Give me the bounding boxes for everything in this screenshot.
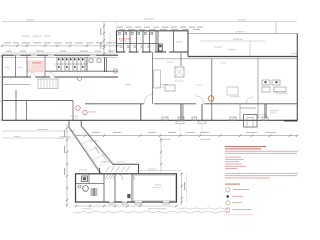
right roof edge line bbox=[188, 33, 298, 35]
corridor line bbox=[2, 84, 30, 86]
dim line above bb right bbox=[136, 170, 181, 172]
rotated dim text a bbox=[64, 130, 65, 137]
right hall wall bbox=[257, 57, 259, 120]
red notes paragraph 1 bbox=[225, 151, 298, 154]
orange circle marker bbox=[208, 96, 214, 102]
room fixtures x87-104 bbox=[89, 59, 101, 62]
faint footer text bbox=[228, 213, 253, 216]
overall dimension line top bbox=[2, 21, 297, 23]
dim line below left bbox=[2, 130, 75, 132]
corridor walls (diagonal) bbox=[69, 121, 115, 174]
wall bbox=[44, 55, 46, 77]
hall divider x212 bbox=[211, 59, 213, 120]
hatched room (pink) bbox=[28, 61, 45, 72]
door arc bbox=[196, 96, 204, 104]
dark wall segment SE bbox=[284, 120, 298, 122]
wall lower3 bbox=[201, 104, 203, 120]
red circle marker 3 bbox=[76, 106, 80, 110]
dim ticks x161 bbox=[160, 139, 162, 165]
left dim text row 1 bbox=[4, 42, 118, 43]
terrain squiggle line 2 bbox=[177, 208, 228, 209]
stairs left block bbox=[38, 79, 58, 89]
terrain squiggle line bbox=[74, 211, 230, 213]
wall at corridor junction bbox=[72, 101, 74, 120]
text at bb corner bbox=[79, 169, 87, 172]
door openings + thresholds bottom wall bb bbox=[109, 201, 169, 204]
red notes heading bbox=[225, 146, 266, 149]
wall lower3b bbox=[239, 104, 241, 120]
main north wall left bbox=[2, 54, 118, 56]
bb bottom dim line bbox=[75, 205, 177, 207]
hall text a bbox=[167, 61, 173, 64]
lower internal wall left bbox=[3, 100, 73, 102]
bottom building outline bbox=[76, 174, 177, 202]
red circle marker 2 bbox=[78, 77, 82, 81]
legend heading bbox=[225, 184, 240, 185]
door arc bbox=[144, 94, 154, 104]
dim line below left 2 bbox=[2, 137, 75, 139]
wall lower4 bbox=[264, 104, 266, 119]
red mark top right bbox=[292, 53, 298, 54]
hall text b bbox=[220, 62, 226, 65]
south wall bbox=[2, 119, 298, 121]
room label bbox=[5, 66, 10, 69]
chain texts below bbox=[160, 139, 210, 140]
hall furniture 1 bbox=[175, 67, 184, 77]
chimney shaft right bbox=[240, 108, 257, 127]
internal corridor wall bbox=[2, 76, 118, 78]
red notes list bbox=[225, 157, 246, 169]
bb second dim col bbox=[186, 174, 188, 202]
door arc c bbox=[246, 97, 253, 104]
bathroom fixtures bottom building bbox=[78, 176, 88, 191]
room label bbox=[18, 66, 23, 69]
east wall bbox=[296, 34, 298, 121]
text above landing bbox=[101, 160, 111, 163]
hall south wall b bbox=[154, 103, 196, 105]
corridor cross ticks bbox=[75, 133, 110, 168]
red text bbox=[108, 77, 116, 78]
door arc bb2 bbox=[129, 174, 135, 180]
text by wall4 bbox=[270, 110, 278, 111]
inner wall face right bbox=[153, 58, 298, 60]
room label bbox=[176, 41, 182, 42]
bb dim text below bbox=[148, 208, 166, 209]
junction text bbox=[70, 115, 78, 118]
bb room label bbox=[155, 184, 161, 185]
hatch small room bbox=[105, 175, 116, 180]
red circle marker 4 bbox=[83, 110, 87, 114]
door arc bb1 bbox=[117, 174, 123, 180]
text above wall bbox=[274, 91, 286, 92]
kitchen fixtures right bbox=[262, 80, 286, 92]
top rooms fixtures bbox=[119, 32, 163, 51]
corridor dim column bbox=[66, 124, 68, 207]
double wall bbox=[104, 57, 106, 72]
table rect bbox=[227, 87, 238, 95]
secondary dim line right bbox=[200, 40, 265, 42]
red label bbox=[88, 111, 96, 112]
wall bbox=[26, 55, 28, 77]
bottom building internal walls bbox=[76, 174, 175, 202]
chain text left bbox=[58, 137, 64, 140]
chain texts above bbox=[92, 132, 276, 133]
wall stub bbox=[240, 107, 256, 109]
stray dim text bbox=[22, 36, 30, 37]
extension line band corner bbox=[116, 22, 118, 31]
hall south wall a bbox=[85, 103, 144, 105]
hall label bbox=[125, 84, 131, 85]
dim tick right bbox=[275, 22, 277, 34]
main north wall right bbox=[188, 56, 298, 58]
legend item 3 bbox=[226, 201, 242, 205]
door gaps in corridor wall bbox=[31, 73, 55, 78]
door gaps band bottom wall bbox=[126, 51, 170, 53]
left dim tick line bbox=[2, 45, 118, 47]
long dimension chain bbox=[75, 135, 298, 137]
hall divider wall bbox=[152, 52, 154, 104]
corridor dim ticks bbox=[66, 127, 68, 206]
wall stub upper bbox=[180, 52, 182, 66]
hall label 2 bbox=[160, 84, 168, 85]
corridor rotated text b bbox=[101, 153, 106, 160]
door steps below south wall bbox=[176, 121, 206, 135]
wall lower left 2 bbox=[26, 101, 28, 120]
stairs bottom building bbox=[91, 188, 98, 196]
hall text c bbox=[196, 84, 202, 87]
top rooms band outline bbox=[117, 31, 189, 52]
west wall bbox=[1, 55, 3, 121]
chain ticks bbox=[84, 134, 298, 137]
hall text bbox=[175, 81, 183, 82]
legend item 1 bbox=[226, 188, 249, 192]
left dim ticks bbox=[1, 45, 119, 47]
dim line to bottom building bbox=[160, 137, 162, 172]
bb right dim column bbox=[181, 172, 183, 205]
rotated dim text c bbox=[64, 168, 65, 175]
sub wall bbox=[45, 70, 118, 72]
hall south wall c bbox=[204, 103, 297, 105]
hall furniture 2 bbox=[165, 85, 175, 91]
corridor rotated text a bbox=[94, 146, 99, 153]
inner wall face left bbox=[2, 56, 118, 58]
red dim text in top rooms bbox=[119, 38, 131, 39]
windows on south wall bbox=[162, 117, 268, 120]
rotated dim text b bbox=[64, 146, 65, 153]
legend item 2 (filled dot) bbox=[226, 195, 243, 198]
corridor dim text bbox=[90, 141, 98, 142]
wall lower bbox=[180, 104, 182, 120]
wall lower left bbox=[15, 90, 17, 120]
bb rotated text bbox=[184, 182, 185, 190]
bb bottom dim ticks bbox=[75, 205, 178, 207]
shaft rect bbox=[154, 70, 161, 88]
wall lower2 bbox=[140, 104, 142, 120]
west outside ticks bbox=[0, 56, 2, 120]
left dim text row 2 bbox=[6, 51, 114, 52]
red circle marker bbox=[113, 69, 117, 73]
landing protrusion bbox=[100, 164, 139, 174]
top rooms dim text rows bbox=[117, 27, 203, 30]
left dim tick line 2 bbox=[2, 52, 118, 54]
vertical dim column bbox=[103, 22, 105, 55]
bb right dim ticks bbox=[180, 173, 182, 203]
WC room cluster bbox=[55, 57, 87, 71]
windows in north wall left bbox=[14, 54, 96, 56]
red notes paragraph 2 bbox=[225, 173, 298, 179]
top rooms internal walls bbox=[118, 31, 174, 52]
text above canopy line bbox=[236, 31, 244, 32]
legend item 4 bbox=[226, 208, 252, 212]
wall bbox=[15, 55, 17, 77]
